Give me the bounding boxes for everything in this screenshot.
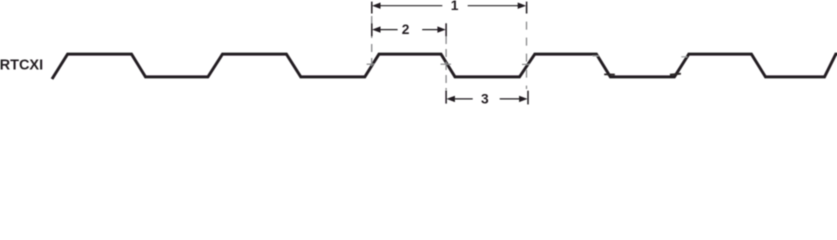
dimension arrow 2, right line segment [422, 29, 438, 31]
50% level tick on rising edge at dashed line 1 [367, 63, 375, 65]
svg-text:RTCXI: RTCXI [0, 58, 43, 74]
dimension arrow 1, left line segment [380, 5, 442, 7]
dimension arrow 1, right tick [526, 2, 528, 14]
dimension arrow 2, right arrowhead [437, 26, 445, 32]
label 1 [451, 0, 459, 13]
wire: RTCXI clock waveform trace [52, 54, 837, 79]
dimension arrow 1 (cycle time), left tick [371, 2, 373, 14]
50% level tick on falling edge at dashed line 2 [441, 63, 452, 65]
50% level tick on rising edge at dashed line 3 [522, 63, 530, 65]
dashed reference line at next rising edge (end of markers 1 and 3) [526, 2, 528, 89]
dimension arrow 2, left line segment [380, 29, 397, 31]
dimension arrow 3 (low pulse width), left tick [445, 90, 447, 103]
dimension arrow 3, left line segment [455, 98, 473, 100]
label 2 [402, 22, 410, 37]
label 3 [481, 92, 489, 107]
dimension arrow 3, left arrowhead [447, 96, 455, 102]
svg-text:2: 2 [402, 22, 410, 37]
dashed reference line at rising edge (node for markers 1 and 2 start) [371, 2, 373, 66]
residual grey tick near rising-edge top corner (x~684) [681, 56, 687, 58]
svg-text:3: 3 [481, 92, 489, 107]
signal label RTCXI [0, 58, 43, 74]
svg-text:1: 1 [451, 0, 459, 13]
residual tick crossing rising edge near bottom corner (x~675) [670, 74, 681, 75]
dimension arrow 2 (high pulse width), left tick [371, 23, 373, 36]
dimension arrow 1, right arrowhead [518, 3, 526, 9]
residual grey tick near falling-edge top corner (x~597) [593, 55, 599, 57]
dimension arrow 1, left arrowhead [372, 3, 380, 9]
residual tick crossing falling edge near bottom corner (x~609) [604, 73, 615, 75]
dimension arrow 1, right line segment [468, 5, 519, 7]
dimension arrow 2, left arrowhead [372, 26, 380, 32]
dashed reference line at falling edge (end of marker 2, start of marker 3) [445, 36, 447, 90]
dimension arrow 3, right arrowhead [519, 96, 527, 102]
dimension arrow 3, right tick [527, 91, 529, 105]
dimension arrow 2, right tick [445, 23, 447, 36]
dimension arrow 3, right line segment [500, 98, 520, 100]
